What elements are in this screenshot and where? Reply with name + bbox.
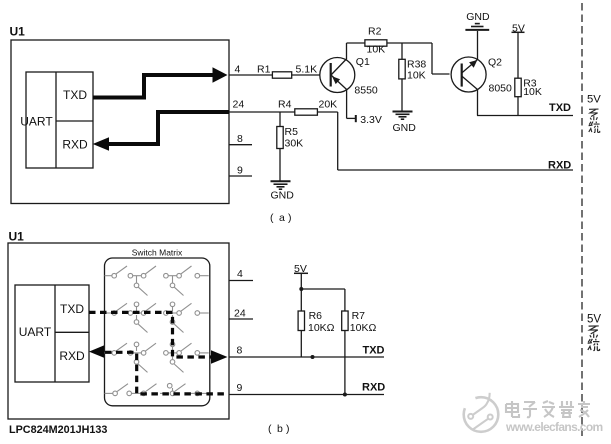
svg-text:Q2: Q2 xyxy=(488,57,502,69)
svg-text:10K: 10K xyxy=(523,86,542,98)
svg-text:GND: GND xyxy=(466,11,490,23)
svg-text:8: 8 xyxy=(237,133,243,145)
svg-text:TXD: TXD xyxy=(60,302,84,316)
svg-text:www.elecfans.com: www.elecfans.com xyxy=(505,420,603,434)
svg-text:24: 24 xyxy=(233,99,245,111)
svg-text:9: 9 xyxy=(237,165,243,177)
svg-text:R7: R7 xyxy=(352,310,366,322)
svg-text:10KΩ: 10KΩ xyxy=(308,322,335,334)
svg-text:Q1: Q1 xyxy=(356,56,370,68)
svg-text:RXD: RXD xyxy=(362,382,385,394)
svg-text:LPC824M201JH133: LPC824M201JH133 xyxy=(9,424,107,436)
svg-text:(: ( xyxy=(270,212,274,224)
svg-text:Switch Matrix: Switch Matrix xyxy=(132,248,183,258)
svg-text:UART: UART xyxy=(20,115,53,129)
svg-text:RXD: RXD xyxy=(62,138,88,152)
svg-text:TXD: TXD xyxy=(549,102,571,114)
svg-text:3.3V: 3.3V xyxy=(360,114,382,126)
svg-text:): ) xyxy=(288,212,292,224)
svg-text:5.1K: 5.1K xyxy=(296,64,318,76)
svg-text:10KΩ: 10KΩ xyxy=(350,322,377,334)
svg-text:UART: UART xyxy=(19,325,52,339)
svg-text:8050: 8050 xyxy=(489,83,513,95)
svg-text:5V: 5V xyxy=(587,94,601,106)
svg-text:RXD: RXD xyxy=(548,160,571,172)
svg-text:): ) xyxy=(286,423,290,435)
svg-text:TXD: TXD xyxy=(63,88,87,102)
svg-text:(: ( xyxy=(268,423,272,435)
svg-text:GND: GND xyxy=(271,190,295,202)
svg-text:4: 4 xyxy=(237,268,243,280)
svg-text:8: 8 xyxy=(237,345,243,357)
svg-text:R4: R4 xyxy=(278,99,292,111)
svg-text:TXD: TXD xyxy=(363,345,385,357)
svg-text:U1: U1 xyxy=(9,230,25,244)
svg-text:U1: U1 xyxy=(10,25,26,39)
svg-text:24: 24 xyxy=(234,308,246,320)
svg-text:5V: 5V xyxy=(587,314,601,326)
svg-text:R1: R1 xyxy=(257,64,271,76)
svg-text:9: 9 xyxy=(237,382,243,394)
svg-text:8550: 8550 xyxy=(354,85,378,97)
svg-text:R2: R2 xyxy=(368,26,382,38)
svg-text:10K: 10K xyxy=(367,44,386,56)
svg-text:30K: 30K xyxy=(285,138,304,150)
svg-text:5V: 5V xyxy=(294,263,307,275)
svg-text:GND: GND xyxy=(393,122,417,134)
svg-text:R6: R6 xyxy=(309,310,323,322)
svg-text:b: b xyxy=(277,423,283,435)
svg-text:RXD: RXD xyxy=(59,349,85,363)
svg-text:20K: 20K xyxy=(319,99,338,111)
svg-text:10K: 10K xyxy=(407,70,426,82)
svg-text:R5: R5 xyxy=(285,126,299,138)
svg-text:4: 4 xyxy=(235,64,241,76)
svg-text:a: a xyxy=(279,212,285,224)
svg-text:5V: 5V xyxy=(512,23,525,35)
